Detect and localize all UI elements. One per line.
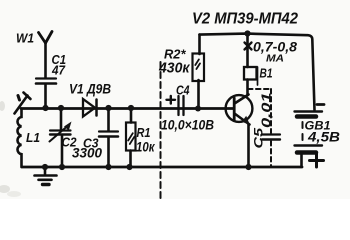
svg-text:C4: C4 (176, 83, 190, 98)
svg-text:4,5В: 4,5В (307, 129, 340, 145)
svg-text:3300: 3300 (72, 146, 102, 161)
svg-text:10,0×10В: 10,0×10В (161, 117, 214, 133)
svg-text:C5: C5 (252, 128, 266, 149)
svg-text:10к: 10к (136, 140, 155, 155)
svg-text:L1: L1 (26, 130, 40, 145)
svg-text:R2*: R2* (164, 48, 187, 62)
svg-text:R1: R1 (137, 125, 151, 140)
svg-text:В1: В1 (260, 67, 273, 81)
svg-text:0,01: 0,01 (260, 92, 274, 128)
svg-text:430к: 430к (158, 61, 190, 77)
svg-text:МА: МА (266, 53, 284, 65)
svg-text:V1 Д9В: V1 Д9В (69, 82, 111, 97)
svg-text:W1: W1 (16, 31, 34, 46)
svg-text:V2 МП39-МП42: V2 МП39-МП42 (192, 10, 298, 27)
svg-text:47: 47 (51, 64, 66, 78)
